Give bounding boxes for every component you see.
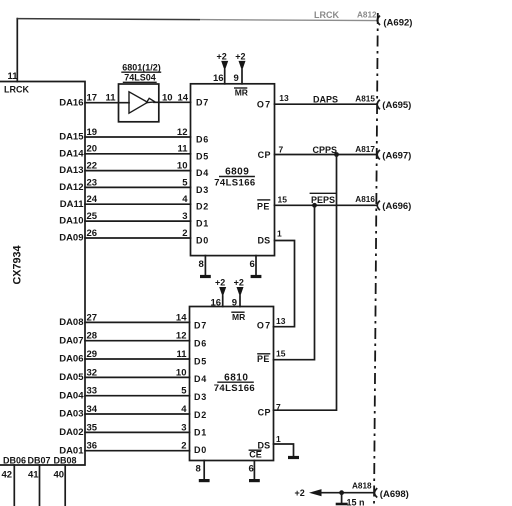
power +2 arrow at 6810 pin 16 [215, 277, 226, 306]
svg-text:41: 41 [28, 469, 39, 480]
svg-text:36: 36 [87, 441, 98, 452]
wire LRCK horizontal segment to boundary connector A812 [17, 19, 200, 20]
svg-text:PEPS: PEPS [311, 195, 335, 205]
svg-text:DA04: DA04 [59, 390, 84, 401]
svg-text:DA12: DA12 [59, 182, 83, 193]
inverter U2 box [119, 84, 159, 122]
svg-text:D5: D5 [194, 356, 207, 366]
svg-text:(A698): (A698) [380, 489, 409, 500]
inverter U2 label 6801(1/2) [122, 62, 161, 72]
svg-text:33: 33 [87, 386, 98, 397]
svg-text:A818: A818 [352, 482, 372, 491]
wire inverter output to 6809 D7 pin 14 [154, 101, 191, 103]
svg-text:D1: D1 [196, 219, 209, 229]
wire DB08 pin stub [64, 465, 66, 506]
IC U4 pin label PE (with overline) [257, 354, 270, 364]
boundary dash-dot line [374, 13, 378, 506]
svg-text:7: 7 [276, 402, 281, 412]
svg-text:D4: D4 [194, 374, 207, 384]
svg-text:D7: D7 [194, 321, 207, 331]
svg-text:DS: DS [257, 236, 270, 246]
wire DA04 to 6810 D3 [85, 395, 190, 397]
svg-text:1: 1 [277, 229, 282, 239]
svg-text:CP: CP [258, 150, 271, 160]
power +2 arrow at 6809 pin 16 [217, 51, 229, 84]
svg-text:D7: D7 [196, 98, 209, 108]
svg-text:10: 10 [162, 92, 173, 103]
IC U3 pin label PE (with overline) [257, 200, 270, 212]
junction A818 capacitor tap [339, 490, 344, 495]
wire DA12 to 6809 D3 [85, 186, 191, 188]
svg-text:22: 22 [87, 161, 98, 172]
svg-text:3: 3 [181, 422, 186, 433]
wire 6810 DS to ground [274, 444, 294, 456]
connector A818 [375, 489, 377, 497]
wire DA03 to 6810 D2 [85, 413, 190, 415]
svg-text:10: 10 [176, 367, 187, 378]
junction PEPS [312, 203, 317, 208]
power +2 arrow at 6809 pin 9 [235, 51, 245, 84]
wire DA05 to 6810 D4 [85, 376, 190, 378]
svg-text:20: 20 [87, 144, 98, 155]
connector A817 [377, 151, 379, 159]
svg-text:DA14: DA14 [59, 148, 84, 159]
svg-text:DA01: DA01 [59, 445, 84, 456]
svg-text:A816: A816 [355, 195, 375, 204]
wire DAPS from 6809 O7 to connector A815 [275, 103, 377, 105]
svg-text:40: 40 [54, 469, 65, 480]
net label PEPS (with overline) [310, 193, 336, 205]
svg-text:+2: +2 [235, 51, 245, 61]
svg-text:13: 13 [279, 93, 289, 103]
ground at 6810 pin 8 [199, 461, 210, 481]
svg-text:DA11: DA11 [60, 199, 84, 210]
svg-text:3: 3 [182, 211, 187, 222]
wire DA13 to 6809 D4 [85, 170, 191, 172]
wire DA02 to 6810 D1 [85, 431, 190, 433]
svg-text:9: 9 [234, 73, 239, 84]
svg-text:11: 11 [177, 144, 188, 155]
svg-text:14: 14 [176, 312, 187, 323]
svg-text:24: 24 [87, 194, 98, 205]
svg-text:DA09: DA09 [59, 233, 83, 244]
svg-text:PE: PE [257, 202, 270, 212]
svg-text:+2: +2 [295, 488, 305, 498]
svg-text:MR: MR [235, 87, 248, 97]
svg-text:DAPS: DAPS [313, 95, 338, 105]
svg-text:DA07: DA07 [59, 335, 83, 346]
IC U4 6810 74LS166 box [190, 307, 274, 461]
svg-text:34: 34 [87, 404, 98, 415]
svg-text:11: 11 [106, 93, 117, 104]
IC U3 name 6809 [220, 167, 255, 178]
svg-text:DA06: DA06 [59, 354, 83, 365]
svg-text:DA02: DA02 [59, 427, 83, 438]
capacitor C1 lead [341, 493, 343, 503]
svg-text:LRCK: LRCK [4, 84, 29, 94]
connector A815 [377, 100, 379, 108]
svg-text:(A697): (A697) [382, 150, 411, 161]
wire 6809 DS to 6810 O7 (cascade) [274, 241, 295, 327]
connector A816 [377, 201, 379, 209]
svg-text:6: 6 [249, 464, 254, 475]
svg-text:(A692): (A692) [383, 17, 412, 28]
svg-text:CP: CP [258, 407, 271, 417]
ground at 6809 pin 6 [251, 256, 262, 277]
wire DA09 to 6809 D0 [85, 237, 191, 239]
svg-text:DA05: DA05 [59, 372, 84, 383]
svg-text:14: 14 [178, 92, 189, 103]
svg-text:(A696): (A696) [382, 201, 411, 212]
svg-text:D4: D4 [196, 168, 209, 178]
svg-text:5: 5 [181, 386, 187, 397]
svg-text:DA10: DA10 [59, 216, 83, 227]
ground at 6810 pin 6 [249, 461, 260, 481]
svg-text:2: 2 [181, 441, 186, 452]
power +2 arrow at 6810 pin 9 [234, 277, 244, 306]
wire PEPS from 6809 PE to connector A816 [275, 204, 377, 206]
svg-text:8: 8 [196, 464, 201, 475]
svg-text:6801(1/2): 6801(1/2) [122, 62, 161, 72]
junction CPPS [334, 152, 339, 157]
svg-text:CPPS: CPPS [313, 145, 338, 155]
svg-text:74LS166: 74LS166 [214, 177, 255, 188]
wire DA14 to 6809 D5 [85, 153, 191, 155]
ground at 6809 pin 8 [200, 256, 211, 277]
svg-text:DA13: DA13 [59, 165, 83, 176]
svg-text:D2: D2 [194, 410, 207, 420]
svg-text:15: 15 [276, 349, 286, 359]
svg-text:7: 7 [279, 145, 284, 155]
svg-text:16: 16 [213, 73, 224, 84]
svg-text:15 n: 15 n [347, 498, 365, 506]
wire LRCK vertical segment from CX7934 pin 11 [16, 19, 18, 82]
svg-text:15: 15 [278, 195, 288, 205]
inverter U2 triangle [129, 92, 148, 113]
connector A812 [377, 16, 379, 24]
wire PEPS vertical down to 6810 PE [274, 205, 315, 359]
wire CPPS vertical down to 6810 CP [274, 155, 337, 411]
svg-text:5: 5 [182, 177, 188, 188]
svg-text:4: 4 [181, 404, 187, 415]
wire DA11 to 6809 D2 [85, 203, 191, 205]
svg-text:23: 23 [87, 177, 98, 188]
svg-text:+2: +2 [234, 277, 244, 287]
wire DA07 to 6810 D6 [85, 340, 190, 342]
svg-text:11: 11 [176, 349, 187, 360]
wire DA10 to 6809 D1 [85, 220, 191, 222]
svg-text:+2: +2 [215, 277, 225, 287]
IC U3 pin label MR (with overline) [235, 87, 248, 97]
svg-text:D0: D0 [194, 445, 207, 455]
svg-text:D6: D6 [196, 135, 209, 145]
wire DA06 to 6810 D5 [85, 358, 190, 360]
svg-text:9: 9 [232, 297, 237, 308]
svg-text:(A695): (A695) [382, 100, 411, 111]
svg-text:19: 19 [87, 127, 98, 138]
wire CPPS from 6809 CP to connector A817 [275, 154, 377, 156]
capacitor C1 plate [336, 503, 348, 506]
IC U4 pin label CE (with overline) [249, 449, 262, 459]
svg-text:D3: D3 [196, 185, 209, 195]
wire DA15 to 6809 D6 [85, 136, 191, 138]
power +2 arrow (A818 net) [295, 488, 322, 498]
svg-text:PE: PE [257, 354, 270, 364]
wire DB07 pin stub [39, 465, 41, 506]
svg-text:D1: D1 [194, 428, 207, 438]
svg-text:29: 29 [87, 349, 98, 360]
wire DA16 from CX7934 pin 17 to inverter input [85, 102, 129, 104]
IC U1 CX7934 outline [0, 82, 85, 466]
svg-text:DA08: DA08 [59, 317, 83, 328]
inverter U2 output bubble [146, 98, 155, 102]
svg-text:2: 2 [182, 228, 187, 239]
svg-text:12: 12 [176, 331, 187, 342]
svg-text:LRCK: LRCK [314, 10, 339, 20]
wire A818 from +2 arrow to connector [321, 492, 374, 494]
svg-text:A812: A812 [357, 11, 377, 20]
IC U3 6809 74LS166 box [191, 84, 275, 256]
svg-text:D0: D0 [196, 235, 209, 245]
svg-text:+2: +2 [217, 51, 227, 61]
svg-text:D3: D3 [194, 392, 207, 402]
svg-text:13: 13 [276, 316, 286, 326]
svg-text:27: 27 [87, 312, 98, 323]
IC U4 pin label MR (with overline) [232, 312, 245, 322]
svg-text:74LS04: 74LS04 [124, 73, 156, 83]
wire DA08 to 6810 D7 [85, 321, 190, 323]
svg-text:42: 42 [2, 469, 13, 480]
svg-text:35: 35 [87, 422, 98, 433]
svg-text:O7: O7 [257, 321, 271, 331]
svg-text:12: 12 [177, 127, 188, 138]
svg-text:25: 25 [87, 211, 98, 222]
svg-text:8: 8 [199, 259, 204, 270]
svg-text:DA15: DA15 [59, 132, 84, 143]
svg-text:D5: D5 [196, 151, 209, 161]
IC U4 name 6810 [218, 372, 253, 383]
svg-text:1: 1 [276, 434, 281, 444]
svg-text:6: 6 [250, 259, 255, 270]
svg-text:CX7934: CX7934 [11, 245, 23, 284]
svg-text:17: 17 [87, 93, 98, 104]
svg-text:DA16: DA16 [59, 97, 83, 108]
wire DA01 to 6810 D0 [85, 450, 190, 452]
svg-text:26: 26 [87, 228, 98, 239]
svg-text:28: 28 [87, 331, 98, 342]
wire DB06 pin stub [13, 465, 15, 506]
svg-text:4: 4 [182, 194, 188, 205]
svg-text:16: 16 [211, 297, 222, 308]
svg-text:D2: D2 [196, 202, 209, 212]
svg-text:D6: D6 [194, 339, 207, 349]
svg-text:32: 32 [87, 367, 98, 378]
svg-text:O7: O7 [257, 99, 271, 109]
svg-text:A817: A817 [355, 145, 375, 154]
svg-text:74LS166: 74LS166 [214, 383, 255, 394]
inverter U2 label 74LS04 [124, 73, 157, 83]
svg-text:A815: A815 [355, 95, 375, 104]
svg-text:DA03: DA03 [59, 409, 83, 420]
svg-text:10: 10 [177, 161, 188, 172]
ground at 6810 DS [288, 456, 299, 459]
svg-text:MR: MR [232, 312, 245, 322]
